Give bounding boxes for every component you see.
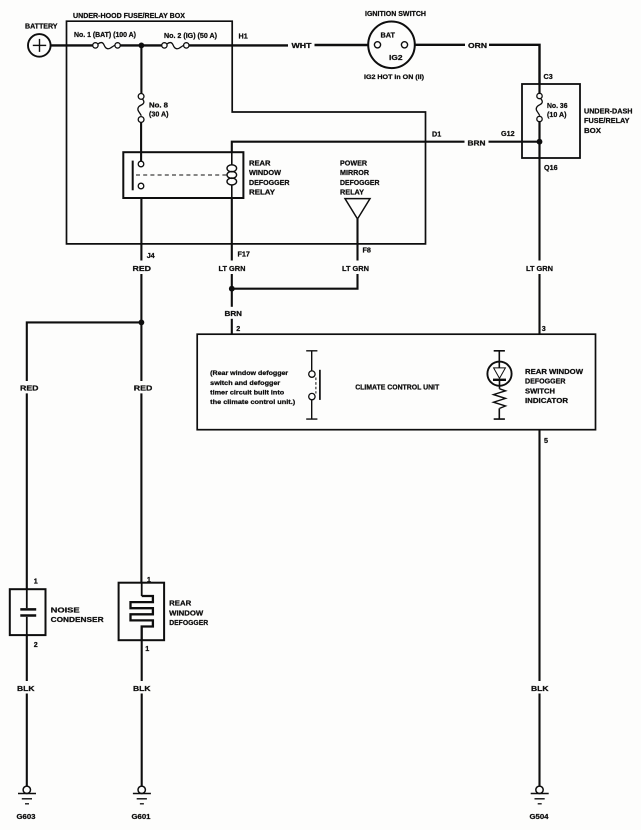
svg-text:LT GRN: LT GRN: [342, 264, 369, 273]
wire J4 RED: [140, 198, 142, 261]
junction: [139, 320, 145, 326]
svg-text:DEFOGGER: DEFOGGER: [340, 178, 380, 187]
svg-text:C3: C3: [544, 72, 553, 81]
battery: [28, 34, 51, 57]
svg-text:FUSE/RELAY: FUSE/RELAY: [584, 116, 630, 125]
svg-text:5: 5: [544, 436, 548, 445]
svg-text:NOISE: NOISE: [51, 605, 80, 614]
svg-text:2: 2: [34, 640, 38, 649]
wire ignition to under-dash box, ORN label: [415, 44, 465, 46]
junction: [139, 43, 145, 49]
svg-text:timer circuit built into: timer circuit built into: [210, 389, 284, 396]
climate control unit box: [197, 334, 595, 430]
wire climate pin 5 BLK to ground: [538, 430, 540, 681]
svg-text:BOX: BOX: [584, 126, 601, 135]
svg-text:H1: H1: [239, 32, 248, 41]
svg-text:G603: G603: [17, 812, 36, 821]
svg-text:MIRROR: MIRROR: [340, 168, 370, 177]
svg-text:3: 3: [542, 324, 546, 333]
svg-text:LT GRN: LT GRN: [219, 264, 246, 273]
svg-text:SWITCH: SWITCH: [525, 386, 555, 395]
svg-text:BLK: BLK: [133, 684, 151, 693]
svg-text:BLK: BLK: [17, 684, 35, 693]
svg-text:POWER: POWER: [340, 158, 368, 167]
svg-text:1: 1: [145, 644, 149, 653]
svg-text:the climate control unit.): the climate control unit.): [210, 399, 295, 406]
svg-text:REAR WINDOW: REAR WINDOW: [525, 367, 583, 376]
svg-text:WINDOW: WINDOW: [169, 608, 203, 617]
ignition switch: [368, 22, 415, 69]
svg-text:F17: F17: [238, 250, 250, 259]
under-dash fuse/relay box: [522, 84, 580, 158]
svg-text:1: 1: [147, 575, 151, 584]
svg-text:REAR: REAR: [249, 158, 271, 167]
under-hood fuse/relay box: [67, 21, 426, 244]
fuse No.36 10A: [538, 84, 540, 94]
svg-text:No. 1 (BAT) (100 A): No. 1 (BAT) (100 A): [74, 32, 136, 39]
svg-text:DEFOGGER: DEFOGGER: [525, 377, 566, 386]
svg-text:F8: F8: [363, 246, 371, 255]
svg-text:ORN: ORN: [468, 41, 487, 50]
wire battery to under-hood box: [51, 44, 93, 46]
wire LT GRN to climate pin 3: [538, 158, 540, 261]
svg-text:RELAY: RELAY: [340, 188, 364, 197]
svg-text:(30 A): (30 A): [149, 112, 169, 119]
svg-text:D1: D1: [432, 130, 441, 139]
svg-text:BATTERY: BATTERY: [25, 22, 58, 31]
defogger switch symbol: [306, 351, 317, 371]
wire BLK to G601: [141, 640, 143, 681]
wire fuse2 to ignition switch, H1 connector, WHT label: [189, 44, 288, 46]
svg-text:WHT: WHT: [292, 41, 313, 50]
svg-text:(Rear window defogger: (Rear window defogger: [210, 370, 288, 377]
arrow to power mirror defogger relay: [345, 199, 370, 219]
svg-text:No. 36: No. 36: [547, 103, 568, 110]
svg-text:(10 A): (10 A): [547, 112, 567, 119]
wire BRN from relay coil to under-dash box, D1 connector: [232, 142, 465, 153]
wire middle RED down: [140, 322, 142, 381]
svg-text:BRN: BRN: [225, 309, 243, 318]
svg-text:UNDER-DASH: UNDER-DASH: [584, 107, 633, 116]
svg-text:G504: G504: [530, 812, 549, 821]
wire BLK to G603: [26, 635, 28, 681]
svg-text:UNDER-HOOD FUSE/RELAY BOX: UNDER-HOOD FUSE/RELAY BOX: [73, 11, 185, 20]
ground G601: [138, 786, 145, 793]
svg-text:REAR: REAR: [169, 599, 192, 608]
svg-text:IG2: IG2: [389, 53, 403, 62]
svg-text:RED: RED: [134, 384, 153, 393]
relay contact: [132, 161, 134, 191]
svg-text:1: 1: [34, 577, 38, 586]
svg-text:CONDENSER: CONDENSER: [51, 615, 105, 624]
wire branch to noise condenser: [27, 322, 142, 381]
svg-text:WINDOW: WINDOW: [249, 168, 281, 177]
wire F8 LT GRN: [356, 219, 358, 261]
rear window defogger: [119, 583, 165, 641]
relay mechanical link (dashed): [136, 174, 227, 176]
ground G504: [536, 786, 543, 793]
svg-text:No. 2 (IG) (50 A): No. 2 (IG) (50 A): [164, 33, 217, 40]
junction G12: [537, 139, 543, 145]
svg-text:IG2 HOT in ON (II): IG2 HOT in ON (II): [364, 74, 424, 81]
svg-text:RED: RED: [20, 384, 39, 393]
svg-text:LT GRN: LT GRN: [526, 264, 553, 273]
svg-text:G12: G12: [501, 129, 515, 138]
wire fuse No.8 branch: [140, 45, 142, 93]
svg-text:Q16: Q16: [544, 163, 558, 172]
svg-text:J4: J4: [147, 251, 155, 260]
noise condenser: [10, 589, 46, 635]
svg-text:DEFOGGER: DEFOGGER: [249, 178, 290, 187]
svg-text:G601: G601: [132, 812, 151, 821]
svg-text:DEFOGGER: DEFOGGER: [169, 618, 209, 627]
svg-text:2: 2: [236, 324, 240, 333]
svg-text:BAT: BAT: [381, 31, 396, 40]
svg-text:IGNITION SWITCH: IGNITION SWITCH: [365, 9, 426, 18]
svg-text:BLK: BLK: [531, 684, 549, 693]
rear window defogger relay box: [123, 152, 243, 198]
svg-text:RELAY: RELAY: [249, 188, 275, 197]
rear window defogger switch indicator: [494, 351, 505, 362]
svg-text:INDICATOR: INDICATOR: [525, 396, 569, 405]
relay coil: [231, 152, 233, 164]
wire fuse1 to fuse2: [120, 44, 161, 46]
svg-text:RED: RED: [133, 264, 152, 273]
svg-text:No. 8: No. 8: [149, 102, 168, 109]
svg-text:CLIMATE CONTROL UNIT: CLIMATE CONTROL UNIT: [355, 382, 440, 391]
junction: [229, 286, 235, 292]
wire F17 LT GRN: [231, 198, 233, 261]
svg-text:BRN: BRN: [468, 138, 486, 147]
ground G603: [23, 786, 30, 793]
svg-text:switch and defogger: switch and defogger: [210, 380, 281, 387]
